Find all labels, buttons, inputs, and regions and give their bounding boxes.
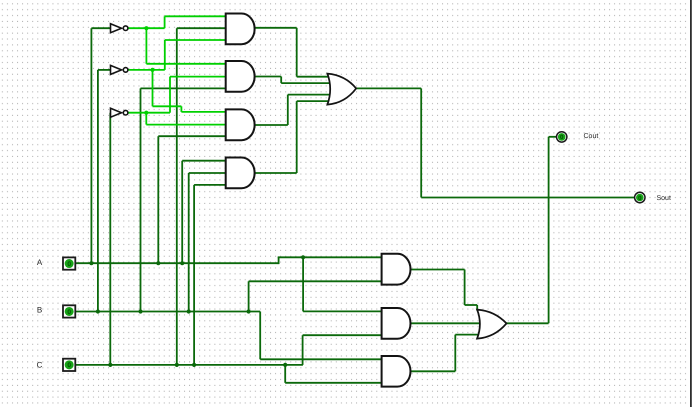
wire C up to inverter U3 input bbox=[109, 113, 111, 365]
inverter U2 bubble bbox=[123, 68, 128, 73]
wire U3 rise to AND2 input 2 bbox=[169, 77, 171, 113]
wire AND2 input 1 horizontal bbox=[146, 63, 226, 65]
svg-text:0: 0 bbox=[67, 261, 71, 268]
wire AND1 input 1 horizontal bbox=[165, 15, 227, 17]
wire AND2 input 2 horizontal bbox=[170, 76, 227, 78]
wire U2 rise to AND1 input 3 bbox=[164, 40, 166, 70]
node inverter U3 output junction bbox=[144, 111, 148, 115]
wire B riser to AND5 input 3 bbox=[248, 281, 250, 311]
wire AND3 input 3 horizontal bbox=[158, 135, 226, 137]
wire OR1 input 4 bbox=[297, 100, 329, 102]
node A junction at inverter feed bbox=[89, 261, 93, 265]
wire AND5 output drop bbox=[464, 270, 466, 306]
wire B up to AND4 input 2 bbox=[188, 173, 190, 312]
wire AND2 input 3 horizontal bbox=[141, 87, 227, 89]
wire AND2 output bbox=[254, 76, 281, 78]
wire AND5 output bbox=[411, 269, 465, 271]
wire inverter U3 output bbox=[128, 112, 170, 114]
wire U2 drop for AND3 bbox=[152, 70, 154, 106]
wire Cout stub bbox=[549, 136, 557, 138]
wire OR1 input 1 bbox=[297, 76, 329, 78]
inverter U3 bubble bbox=[123, 110, 128, 115]
input pin B bbox=[63, 305, 75, 317]
wire AND3 output bbox=[254, 124, 287, 126]
wire AND1 input 2 horizontal bbox=[177, 27, 227, 29]
wire AND4 input 3 horizontal bbox=[194, 184, 227, 186]
wire AND2 output drop bbox=[280, 77, 282, 84]
wire AND4 input 2 horizontal bbox=[189, 172, 227, 174]
node B junction at inverter feed bbox=[96, 309, 100, 313]
wire AND4 output rise bbox=[296, 101, 298, 173]
svg-text:Cout: Cout bbox=[584, 133, 599, 140]
node C junction at inverter feed bbox=[108, 363, 112, 367]
wire A up to inverter U1 input bbox=[90, 28, 92, 263]
svg-text:0: 0 bbox=[67, 362, 71, 369]
node C junction at AND1 feed bbox=[175, 363, 179, 367]
wire B to AND7 input 1 bbox=[260, 358, 382, 360]
wire AND1 input 3 horizontal bbox=[165, 39, 227, 41]
input pin C bbox=[63, 359, 75, 371]
output pin Cout bbox=[557, 132, 567, 142]
node B junction at AND4 feed bbox=[187, 309, 191, 313]
inverter U3 triangle bbox=[111, 108, 122, 117]
wire AND5 output jog bbox=[465, 304, 478, 306]
wire B up to inverter U2 input bbox=[97, 70, 99, 312]
and-gate G3 (AB'C') bbox=[226, 109, 255, 140]
wire net B from pin B bbox=[75, 311, 260, 313]
node B junction at AND5 branch bbox=[247, 309, 251, 313]
wire net A from pin A bbox=[75, 262, 278, 264]
window edge line right bbox=[690, 0, 692, 407]
wire C up to AND1 input 2 bbox=[176, 28, 178, 365]
wire inverter U1 output bbox=[128, 27, 165, 29]
wire net C from pin C bbox=[75, 364, 303, 366]
or-gate G9 (carry) bbox=[477, 310, 506, 339]
svg-text:A: A bbox=[37, 258, 43, 267]
wire A to AND6 input 1 bbox=[303, 310, 382, 312]
inverter U1 bubble bbox=[123, 26, 128, 31]
node inverter U2 output junction bbox=[150, 68, 154, 72]
wire Sout horizontal bbox=[421, 197, 634, 199]
wire AND1 output bbox=[254, 27, 296, 29]
wire A up to AND3 input 3 bbox=[157, 136, 159, 263]
node B junction at AND2 feed bbox=[138, 309, 142, 313]
wire AND4 input 1 horizontal bbox=[182, 160, 226, 162]
wire OR1 output bbox=[356, 87, 421, 89]
wire A riser to AND5 row bbox=[278, 257, 280, 264]
wire OR2 input 3 bbox=[455, 334, 480, 336]
wire inverter U2 input stub bbox=[98, 69, 112, 71]
and-gate G2 (A'BC') bbox=[226, 61, 255, 92]
svg-text:0: 0 bbox=[560, 134, 564, 141]
node A junction at AND6 branch bbox=[301, 255, 305, 259]
node inverter U1 output junction bbox=[144, 26, 148, 30]
wire AND3 output rise bbox=[287, 95, 289, 125]
wire A to AND5 input 1 bbox=[278, 256, 383, 258]
and-gate G7 (AC) bbox=[382, 308, 411, 339]
wire U2 jog horizontal bbox=[153, 105, 182, 107]
and-gate G6 (AB) bbox=[382, 254, 411, 285]
wire C up to AND4 input 3 bbox=[193, 185, 195, 365]
wire OR2 input 1 drop bbox=[476, 305, 478, 311]
wire B up to AND2 input 3 bbox=[140, 88, 142, 311]
wire U1 drop for AND2 bbox=[145, 28, 147, 64]
wire inverter U1 input stub bbox=[91, 27, 111, 29]
wire OR1 output drop to Sout row bbox=[420, 88, 422, 197]
svg-text:0: 0 bbox=[638, 195, 642, 202]
wire U3 drop for AND3 bbox=[145, 113, 147, 125]
svg-text:0: 0 bbox=[67, 309, 71, 316]
wire C to AND7 input 3 bbox=[285, 382, 382, 384]
and-gate G4 (ABC) bbox=[226, 158, 255, 189]
wire B to AND5 input 3 horizontal bbox=[249, 280, 383, 282]
wire U1 rise to AND1 input 1 bbox=[164, 16, 166, 28]
and-gate G8 (BC) bbox=[382, 356, 411, 387]
wire AND6 output to OR2 input 2 bbox=[411, 322, 482, 324]
inverter U1 triangle bbox=[111, 24, 122, 33]
svg-text:C: C bbox=[37, 360, 43, 369]
wire A branch down to AND6 bbox=[302, 257, 304, 311]
wire C riser to AND6 input 3 bbox=[302, 335, 304, 365]
wire C drop to AND7 row bbox=[284, 365, 286, 383]
svg-text:B: B bbox=[37, 306, 42, 315]
node A junction at AND3 feed bbox=[156, 261, 160, 265]
wire B drop to AND7 row bbox=[259, 312, 261, 360]
wire AND4 output bbox=[254, 172, 296, 174]
output pin Sout bbox=[635, 192, 645, 202]
node C junction at AND4 feed bbox=[192, 363, 196, 367]
svg-text:Sout: Sout bbox=[657, 195, 671, 202]
wire OR2 output rise to Cout bbox=[548, 137, 550, 323]
wire U2 jog drop bbox=[180, 106, 182, 112]
wire AND1 output drop bbox=[296, 28, 298, 77]
wire C to AND6 input 3 horizontal bbox=[303, 334, 383, 336]
or-gate G5 (sum) bbox=[327, 74, 356, 105]
input pin A bbox=[63, 257, 75, 269]
wire OR2 output bbox=[507, 322, 549, 324]
wire OR1 input 3 bbox=[288, 94, 331, 96]
and-gate G1 (A'B'C) bbox=[226, 14, 255, 45]
wire AND7 output bbox=[411, 370, 456, 372]
node C junction at AND6 branch bbox=[283, 363, 287, 367]
wire inverter U2 output bbox=[128, 69, 165, 71]
inverter U2 triangle bbox=[111, 65, 122, 74]
node A junction at AND4 feed bbox=[180, 261, 184, 265]
wire OR1 input 2 bbox=[281, 82, 330, 84]
wire AND3 input 1 horizontal bbox=[181, 111, 226, 113]
wire AND3 input 2 horizontal bbox=[146, 124, 226, 126]
wire AND7 output rise bbox=[454, 335, 456, 372]
wire A up to AND4 input 1 bbox=[181, 161, 183, 264]
